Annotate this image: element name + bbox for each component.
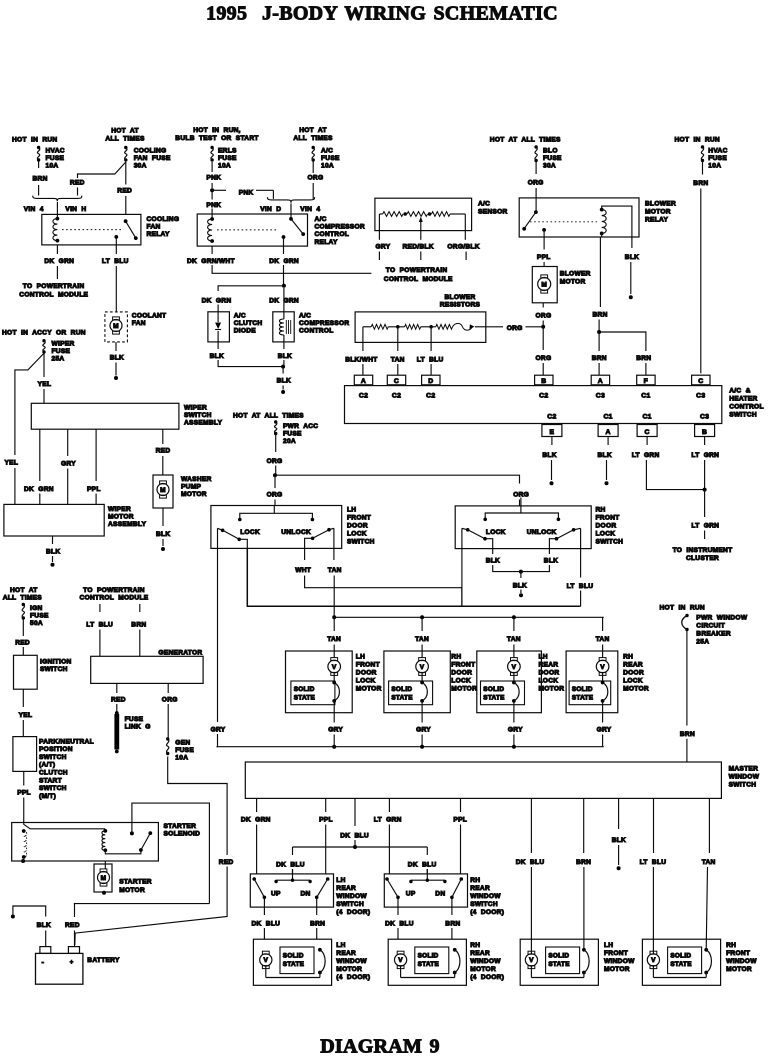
component label: GENERATOR [158, 649, 202, 656]
wire [67, 429, 69, 456]
svg-text:SWITCH: SWITCH [596, 539, 624, 546]
junction dot [273, 473, 277, 477]
component label: FUSE LINK G [125, 716, 151, 731]
svg-text:CLUSTER: CLUSTER [686, 555, 719, 562]
wire [465, 252, 467, 261]
junction dot [420, 745, 424, 749]
wire label LT BLU [567, 583, 594, 590]
svg-text:REAR: REAR [623, 662, 643, 669]
svg-text:LINK G: LINK G [125, 724, 151, 731]
wire [325, 825, 327, 874]
svg-text:PWR ACC: PWR ACC [283, 423, 318, 430]
junction dot on case [21, 859, 25, 863]
svg-text:BRN: BRN [576, 859, 591, 866]
wire label DK GRN [269, 297, 299, 304]
brace over VIN 4 / VIN H [33, 196, 82, 202]
component label [336, 942, 370, 981]
svg-text:D: D [428, 378, 433, 385]
wire label BLK [278, 353, 292, 360]
terminal dot [617, 866, 621, 870]
svg-text:WINDOW: WINDOW [604, 958, 635, 965]
svg-text:YEL: YEL [19, 712, 33, 719]
wire label BLK [598, 452, 612, 459]
svg-text:MOTOR: MOTOR [645, 209, 671, 216]
net label: HOT IN RUN [660, 605, 705, 612]
svg-text:(4 DOOR): (4 DOOR) [336, 974, 370, 981]
wire [115, 363, 117, 376]
svg-text:TAN: TAN [327, 636, 341, 643]
svg-text:RELAY: RELAY [147, 231, 170, 238]
wire [520, 572, 522, 578]
solenoid coil 2 [102, 829, 107, 852]
wire label BRN [680, 731, 695, 738]
wire label BRN [592, 355, 607, 362]
svg-text:HOT AT: HOT AT [111, 128, 139, 135]
svg-text:30A: 30A [134, 163, 147, 170]
wire [704, 490, 706, 517]
wire [304, 548, 306, 560]
lock switch right blade [549, 528, 580, 549]
svg-text:WINDOW: WINDOW [336, 893, 367, 900]
svg-text:(4 DOOR): (4 DOOR) [470, 909, 504, 916]
wire label BLK [110, 355, 124, 362]
wire [542, 303, 544, 308]
wire label LT BLU [102, 258, 129, 265]
text DN [301, 891, 311, 898]
wire label BLK/WHT [345, 357, 377, 364]
wire label ORG [308, 175, 324, 182]
svg-text:BLK: BLK [544, 558, 558, 565]
wire label TAN [507, 636, 521, 643]
wire label RED [111, 697, 126, 704]
wire [95, 429, 97, 481]
svg-text:DK BLU: DK BLU [252, 921, 281, 928]
svg-text:V: V [512, 664, 517, 671]
wire [530, 867, 532, 954]
svg-text:SOLID: SOLID [294, 686, 315, 693]
svg-text:DK GRN: DK GRN [24, 486, 54, 493]
wire [99, 630, 101, 657]
svg-text:GRY: GRY [61, 461, 76, 468]
net label: HOT IN ACCY OR RUN [2, 330, 86, 337]
text: TO POWERTRAIN CONTROL MODULE [19, 283, 88, 298]
svg-text:WASHER: WASHER [181, 476, 212, 483]
net label: HOT IN RUN [12, 137, 57, 144]
wire: GRY riser [217, 548, 219, 722]
terminal dot [51, 563, 55, 567]
wire label PPL [453, 817, 467, 824]
wire [583, 798, 585, 853]
wire: battery ground hook [11, 906, 46, 919]
svg-text:BATTERY: BATTERY [87, 957, 120, 964]
svg-text:GRY: GRY [416, 727, 431, 734]
window switch left blade [385, 877, 400, 907]
wire [388, 798, 390, 812]
wire [116, 683, 118, 693]
component label: STARTER MOTOR [119, 879, 152, 895]
svg-text:DOOR: DOOR [451, 670, 472, 677]
fuse: IGN FUSE 50A [22, 603, 49, 627]
wire label BLK [544, 558, 558, 565]
svg-text:25A: 25A [696, 639, 709, 646]
component label: COOLANT FAN [132, 313, 167, 328]
wire [551, 460, 553, 480]
terminal dot [519, 593, 523, 597]
svg-text:BRN: BRN [592, 355, 607, 362]
wire [388, 825, 390, 874]
svg-text:ORG: ORG [536, 313, 552, 320]
lock switch feed bar [483, 498, 560, 522]
text UP [406, 891, 416, 898]
svg-text:B: B [541, 378, 546, 385]
wire [607, 437, 609, 446]
wire [256, 798, 258, 812]
svg-text:DIODE: DIODE [234, 328, 257, 335]
svg-text:BLK: BLK [46, 548, 60, 555]
wire [14, 468, 16, 504]
switch box: IGNITION SWITCH [14, 655, 38, 689]
wire: DK BLU bus [293, 846, 428, 848]
wire [704, 460, 706, 490]
svg-text:PNK: PNK [239, 190, 254, 197]
wire [162, 429, 164, 444]
svg-text:STATE: STATE [572, 694, 594, 701]
component label [726, 942, 757, 973]
wire: generator fuse feed [168, 757, 227, 856]
wire [451, 928, 453, 939]
svg-text:RED: RED [70, 180, 85, 187]
svg-text:LH: LH [336, 942, 345, 949]
relay dashed link [62, 229, 121, 231]
svg-text:BULB TEST OR START: BULB TEST OR START [175, 135, 258, 142]
svg-text:DN: DN [435, 891, 445, 898]
relay switch (a/c compressor relay) [282, 217, 306, 246]
wire: GRY bus [217, 746, 604, 748]
net label: HOT AT ALL TIMES [105, 128, 145, 143]
svg-text:PPL: PPL [87, 486, 101, 493]
svg-text:SOLID: SOLID [418, 953, 439, 960]
component label: WIPER SWITCH ASSEMBLY [184, 405, 223, 427]
svg-text:REAR: REAR [470, 950, 490, 957]
svg-text:DK BLU: DK BLU [385, 921, 414, 928]
svg-text:FAN: FAN [147, 224, 161, 231]
svg-text:ASSEMBLY: ASSEMBLY [184, 420, 223, 427]
relay dashed link [530, 221, 597, 223]
svg-text:VIN 4: VIN 4 [24, 206, 44, 213]
svg-text:B: B [702, 429, 707, 436]
svg-text:DK BLU: DK BLU [276, 862, 305, 869]
wire [543, 262, 545, 267]
wire [217, 734, 218, 747]
svg-text:(4 DOOR): (4 DOOR) [470, 974, 504, 981]
node VIN 4 [300, 206, 320, 213]
svg-text:DK BLU: DK BLU [340, 833, 369, 840]
solenoid switch blade [139, 831, 152, 852]
wire [652, 867, 654, 954]
wire [74, 904, 76, 917]
svg-text:VIN 4: VIN 4 [300, 206, 320, 213]
wire label LT BLU [640, 859, 667, 866]
svg-text:+: + [70, 960, 74, 966]
component label: A/C CLUTCH DIODE [234, 313, 263, 335]
svg-text:LT GRN: LT GRN [691, 452, 719, 459]
wire [602, 735, 604, 747]
svg-text:SOLID: SOLID [572, 686, 593, 693]
svg-text:COOLANT: COOLANT [132, 313, 167, 320]
svg-text:C1: C1 [641, 392, 650, 399]
wire label RED [117, 188, 132, 195]
svg-text:GRY: GRY [211, 726, 226, 733]
wire label LT BLU [417, 357, 444, 364]
wire label LT GRN [632, 452, 660, 459]
svg-text:FUSE: FUSE [125, 716, 144, 723]
wire label RED [219, 859, 234, 866]
svg-text:COOLING: COOLING [147, 216, 180, 223]
connector pins (bottom) of A/C heater control switch [542, 414, 562, 437]
junction dot [332, 745, 336, 749]
wire [99, 604, 101, 612]
svg-text:FRONT: FRONT [726, 950, 750, 957]
wire [420, 252, 422, 261]
window switch feed bar [274, 869, 311, 883]
wire [535, 162, 537, 175]
svg-text:SOLID: SOLID [548, 953, 569, 960]
svg-text:COMPRESSOR: COMPRESSOR [315, 224, 365, 231]
svg-text:COMPRESSOR: COMPRESSOR [299, 320, 349, 327]
wire [139, 604, 141, 612]
svg-text:BLOWER: BLOWER [560, 271, 591, 278]
fuse: A/C FUSE 10A [312, 146, 341, 170]
wire [283, 246, 285, 254]
svg-text:YEL: YEL [5, 460, 19, 467]
svg-text:M: M [160, 487, 166, 494]
wire [543, 237, 545, 250]
component box: A/C CLUTCH DIODE [208, 312, 230, 342]
wire [646, 437, 648, 446]
window switch left blade [252, 877, 266, 907]
svg-text:DN: DN [301, 891, 311, 898]
svg-text:BRN: BRN [131, 622, 146, 629]
wire [461, 549, 463, 607]
wire [464, 214, 466, 240]
svg-text:LT BLU: LT BLU [417, 357, 444, 364]
component label [470, 942, 504, 981]
wire [513, 617, 515, 631]
svg-text:STATE: STATE [483, 694, 505, 701]
svg-text:SOLID: SOLID [283, 953, 304, 960]
svg-text:CONTROL MODULE: CONTROL MODULE [384, 276, 453, 283]
junction dot [210, 188, 214, 192]
wire [283, 360, 285, 367]
wire [292, 869, 294, 874]
wire label BLK [625, 254, 639, 261]
wire [378, 252, 380, 261]
svg-text:SOLID: SOLID [670, 953, 691, 960]
junction dot [420, 615, 424, 619]
svg-text:TAN: TAN [596, 636, 610, 643]
component label: PARK/NEUTRAL POSITION SWITCH (A/T) CLUTCH START SWITCH (M/T) [39, 738, 94, 800]
svg-text:CLUTCH: CLUTCH [39, 770, 68, 777]
component label: WIPER MOTOR ASSEMBLY [108, 506, 147, 528]
svg-text:ORG: ORG [513, 492, 529, 499]
wire [275, 466, 277, 476]
wire label BLK [542, 452, 556, 459]
wire [316, 928, 318, 939]
wire label PPL [87, 486, 101, 493]
svg-text:RELAY: RELAY [315, 239, 338, 246]
junction dot [512, 745, 516, 749]
text: TO INSTRUMENT CLUSTER [673, 547, 733, 562]
motor box: LH FRONT WINDOW MOTOR [520, 939, 598, 985]
switch box: LH REAR WINDOW SWITCH [250, 874, 333, 907]
wire label TAN [702, 859, 716, 866]
motor box: RH FRONT WINDOW MOTOR [642, 939, 720, 985]
wire label PPL [537, 254, 551, 261]
wire [218, 360, 283, 367]
wire label PPL [319, 817, 333, 824]
svg-text:HOT AT: HOT AT [10, 587, 38, 594]
wire [23, 798, 25, 823]
wire [115, 245, 117, 254]
svg-text:SOLID: SOLID [483, 686, 504, 693]
svg-text:MOTOR: MOTOR [181, 491, 207, 498]
wire label TAN [596, 636, 610, 643]
svg-text:YEL: YEL [38, 381, 52, 388]
wire [602, 645, 604, 659]
wire [706, 867, 707, 950]
svg-text:PPL: PPL [17, 790, 31, 797]
wire [263, 928, 265, 939]
component label: WASHER PUMP MOTOR [181, 476, 212, 498]
svg-text:FUSE: FUSE [52, 348, 71, 355]
wire label BLK [486, 558, 500, 565]
svg-text:DK GRN: DK GRN [202, 297, 232, 304]
svg-text:V: V [600, 664, 605, 671]
svg-text:UP: UP [406, 891, 416, 898]
wire [22, 647, 24, 655]
svg-text:BLO: BLO [543, 148, 558, 155]
svg-text:FUSE: FUSE [218, 155, 237, 162]
lock switch right blade [305, 528, 334, 549]
potentiometer wiper [419, 217, 423, 240]
net label: HOT IN RUN, BULB TEST OR START [175, 127, 258, 142]
svg-text:MOTOR: MOTOR [726, 966, 752, 973]
circuit breaker: PWR WINDOW CIRCUIT BREAKER 25A [682, 614, 748, 646]
wire label DK BLU [340, 833, 369, 840]
svg-text:LT GRN: LT GRN [632, 452, 660, 459]
wire [426, 869, 428, 874]
svg-text:SWITCH: SWITCH [347, 539, 375, 546]
svg-text:DK BLU: DK BLU [516, 859, 545, 866]
wire [493, 565, 521, 572]
svg-text:DK BLU: DK BLU [408, 862, 437, 869]
svg-text:ASSEMBLY: ASSEMBLY [108, 521, 147, 528]
svg-text:BLK: BLK [513, 582, 527, 589]
wire [606, 460, 608, 480]
wire label PNK [239, 190, 254, 197]
wire label BRN [693, 180, 708, 187]
wire label RED [70, 180, 85, 187]
wire [256, 825, 258, 874]
fuse: HVAC FUSE 10A [37, 146, 65, 170]
wire [211, 183, 213, 188]
wire [354, 840, 356, 847]
wire label RED [156, 448, 171, 455]
svg-text:LH: LH [336, 877, 345, 884]
component label: BLOWER MOTOR [560, 271, 591, 286]
wire: RED feed diagonal [75, 867, 227, 946]
wire label DK GRN [24, 486, 54, 493]
switch box: RH REAR WINDOW SWITCH [384, 874, 467, 907]
wire [67, 469, 69, 505]
svg-text:CONTROL MODULE: CONTROL MODULE [19, 291, 88, 298]
component box: WIPER SWITCH ASSEMBLY [31, 403, 179, 429]
svg-text:RH: RH [726, 942, 736, 949]
junction dot [703, 488, 707, 492]
wire [38, 161, 40, 168]
wire [74, 931, 76, 947]
wire [167, 683, 169, 693]
terminal dot [161, 547, 165, 551]
svg-text:V: V [332, 664, 337, 671]
fuse: ERLS FUSE 10A [210, 146, 237, 170]
component box: A/C SENSOR [375, 198, 472, 230]
relay coil (blower motor relay) [600, 208, 606, 236]
wire label DK BLU [516, 859, 545, 866]
text: TO POWERTRAIN CONTROL MODULE [384, 267, 453, 283]
wire label RED [65, 922, 80, 929]
wire [325, 798, 327, 812]
svg-text:PNK: PNK [206, 202, 221, 209]
motor box: RH REAR DOOR LOCK MOTOR [566, 651, 618, 713]
wire label DK BLU [252, 921, 281, 928]
wire: YEL branch [15, 354, 44, 456]
component label [604, 942, 635, 973]
component box: STARTER SOLENOID [12, 823, 159, 862]
svg-text:ALL TIMES: ALL TIMES [3, 595, 43, 602]
wire label DK GRN [202, 297, 232, 304]
terminal dot [550, 481, 554, 485]
junction dot [541, 325, 545, 329]
svg-text:ALL TIMES: ALL TIMES [105, 136, 145, 143]
svg-text:10A: 10A [321, 163, 334, 170]
fusible link: FUSE LINK G [114, 711, 119, 753]
wire label ORG/BLK [447, 244, 479, 251]
wire [56, 266, 58, 279]
svg-text:WINDOW: WINDOW [726, 958, 757, 965]
wire label GRY [376, 244, 391, 251]
wire label GRY [416, 727, 431, 734]
svg-text:POSITION: POSITION [39, 746, 73, 753]
svg-text:RED: RED [219, 859, 234, 866]
wire: DK GRN/WHT to PCM [212, 246, 371, 273]
relay box: A/C COMPRESSOR CONTROL RELAY [197, 214, 307, 246]
wire [115, 342, 117, 351]
svg-text:BLK: BLK [612, 837, 626, 844]
wire label DK BLU [276, 862, 305, 869]
svg-text:F: F [644, 378, 648, 385]
svg-text:BRN: BRN [33, 176, 48, 183]
svg-text:TAN: TAN [391, 357, 405, 364]
wire [460, 825, 462, 874]
wire label BLK [513, 582, 527, 589]
svg-text:PPL: PPL [453, 817, 467, 824]
svg-text:A/C: A/C [321, 148, 333, 155]
svg-text:BLOWER: BLOWER [645, 201, 676, 208]
svg-text:M: M [101, 875, 107, 882]
wire [513, 713, 515, 723]
svg-text:STARTER: STARTER [119, 879, 152, 886]
